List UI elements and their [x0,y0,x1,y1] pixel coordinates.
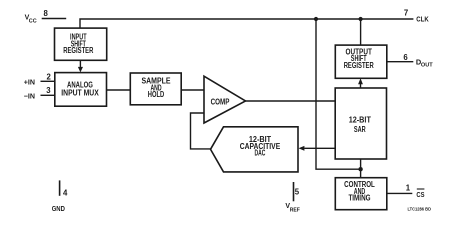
svg-text:8: 8 [44,9,49,18]
wire CS pin 1 stub [387,192,413,194]
svg-text:CLK: CLK [416,15,429,24]
svg-text:COMP: COMP [211,97,230,106]
junction dot on CLK rail (left) [314,17,318,21]
wire SAR bottom to control and timing [360,159,362,178]
op-amp comparator COMP [204,76,246,123]
svg-text:REGISTER: REGISTER [344,61,374,70]
block U4 12-BIT CAPACITIVE DAC [211,127,299,172]
svg-text:CS: CS [416,190,424,199]
svg-text:12-BIT: 12-BIT [349,115,371,124]
pin 4 GND stub [59,180,61,195]
wire comparator output to SAR [246,100,336,102]
svg-text:−IN: −IN [24,91,35,100]
svg-text:LTC1286 BD: LTC1286 BD [408,207,432,212]
svg-text:DAC: DAC [255,149,266,158]
svg-text:OUT: OUT [421,63,434,69]
block U6 OUTPUT SHIFT REGISTER [335,45,387,78]
svg-text:HOLD: HOLD [148,90,165,99]
wire sample and hold to comparator + input [181,89,204,91]
wire arrow SAR to capacitive DAC [299,146,336,151]
svg-text:TIMING: TIMING [348,193,370,202]
pin 5 VREF label [285,187,300,213]
svg-text:2: 2 [47,73,52,82]
pin 3 -IN label [24,86,52,100]
svg-text:3: 3 [46,86,51,95]
wire -IN pin stub [41,94,55,96]
pin 7 CLK label [404,9,429,24]
pin 5 VREF stub [293,182,295,201]
pin 4 GND label [52,189,68,213]
wire arrow ISR to analog input mux [78,60,83,72]
block U2 ANALOG INPUT MUX [55,73,107,107]
svg-text:CC: CC [29,19,37,25]
svg-text:INPUT MUX: INPUT MUX [61,88,99,97]
svg-text:REF: REF [290,207,301,213]
block U1 INPUT SHIFT REGISTER [55,28,107,60]
junction dot SAR/control/CLK net [358,167,362,171]
wire DAC output to comparator - input [191,113,212,149]
svg-text:1: 1 [406,184,411,193]
wire CLK rail down to output shift register [360,19,362,45]
pin 6 DOUT label [403,53,433,68]
svg-text:7: 7 [404,9,408,18]
block U7 CONTROL AND TIMING [335,178,387,210]
wire arrow SAR to output shift register [358,78,363,88]
block U5 12-BIT SAR [335,88,386,159]
svg-text:REGISTER: REGISTER [63,46,93,55]
svg-text:4: 4 [63,189,68,198]
svg-text:5: 5 [295,187,300,196]
note LTC1286 BD part tag [408,207,432,212]
junction dot on CLK rail (right) [359,17,363,21]
svg-text:GND: GND [52,204,66,213]
svg-text:+IN: +IN [24,77,35,86]
wire analog input mux to sample and hold [107,89,131,91]
wire DOUT pin 6 stub [387,61,414,63]
svg-text:SAR: SAR [354,125,366,134]
wire CLK rail down to control/timing net [316,19,361,169]
svg-text:6: 6 [403,53,408,62]
pin 1 CS label [406,184,425,199]
block U3 SAMPLE AND HOLD [130,73,181,105]
wire CLK rail from ISR top to pin 7 [80,19,413,28]
wire +IN pin stub [41,80,55,82]
wire VCC pin 8 stub [42,18,66,20]
pin 2 +IN label [24,73,52,87]
pin 8 VCC label [25,9,49,25]
